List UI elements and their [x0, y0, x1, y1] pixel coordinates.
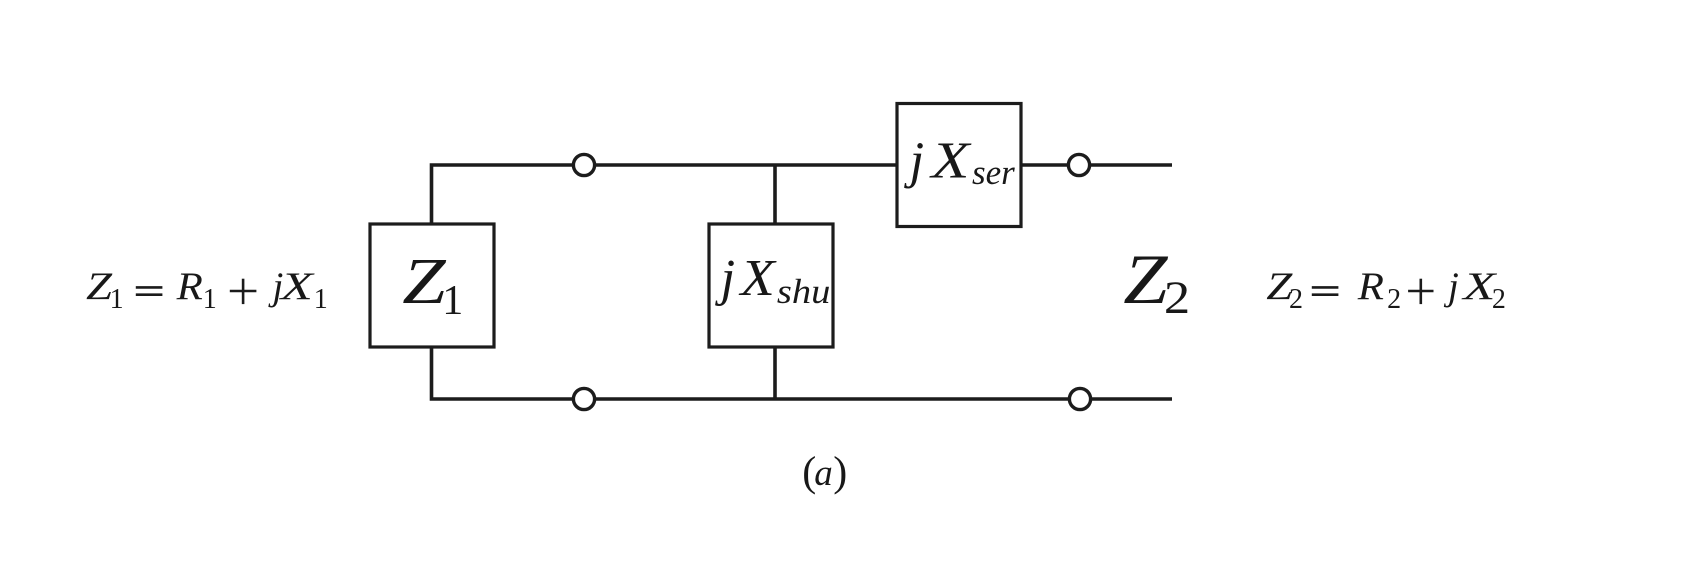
svg-text:1: 1: [314, 284, 328, 315]
svg-text:1: 1: [110, 284, 124, 315]
svg-text:shu: shu: [777, 272, 830, 311]
svg-text:X: X: [929, 132, 971, 189]
svg-text:ser: ser: [972, 153, 1015, 192]
svg-text:a: a: [814, 453, 833, 494]
svg-text:2: 2: [1164, 272, 1190, 324]
svg-text:1: 1: [203, 284, 217, 315]
svg-text:R: R: [1357, 264, 1384, 308]
svg-text:Z: Z: [402, 244, 446, 317]
svg-text:1: 1: [442, 278, 463, 324]
svg-text:Z: Z: [1123, 241, 1168, 319]
svg-text:j: j: [1443, 265, 1459, 308]
svg-text:R: R: [176, 264, 203, 308]
svg-text:X: X: [279, 265, 315, 308]
svg-text:2: 2: [1387, 284, 1401, 315]
svg-text:X: X: [738, 249, 776, 307]
svg-text:): ): [833, 450, 847, 496]
svg-text:2: 2: [1492, 284, 1506, 315]
svg-text:2: 2: [1289, 284, 1303, 315]
